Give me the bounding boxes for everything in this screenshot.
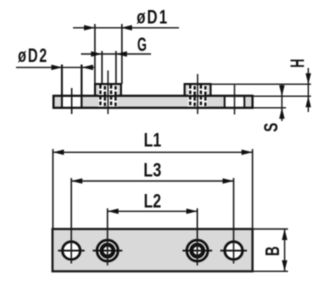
boss 1 thread dashed lines bbox=[100, 85, 115, 107]
hole 3 crosshair horizontal bbox=[183, 250, 213, 252]
H arrow bottom bbox=[306, 96, 312, 107]
svg-text:øD2: øD2 bbox=[18, 45, 49, 67]
hole 4 wall right bbox=[243, 96, 245, 107]
boss 2 hole gap (white, upper) bbox=[188, 85, 207, 95]
hole 1 centerline bbox=[71, 88, 73, 114]
svg-text:S: S bbox=[261, 123, 283, 132]
svg-text:H: H bbox=[287, 59, 309, 68]
D1 extension line right bbox=[121, 24, 123, 84]
D1 arrow left bbox=[84, 25, 95, 31]
G arrow left bbox=[91, 51, 102, 57]
hole 3 counterbore outer bbox=[187, 240, 208, 261]
svg-text:G: G bbox=[137, 34, 147, 56]
L3 extension line right (hole4 centerline) bbox=[233, 178, 235, 264]
hole 1 wall right bbox=[81, 65, 83, 108]
boss 1 body bbox=[95, 84, 121, 96]
hole 1 crosshair horizontal bbox=[58, 250, 85, 252]
S arrow top bbox=[279, 85, 285, 96]
boss 2 thread dashed lines bbox=[190, 85, 205, 107]
boss 1 hole gap (white, upper) bbox=[98, 85, 117, 95]
L2 extension line right (hole3 centerline) bbox=[196, 208, 198, 265]
svg-text:øD1: øD1 bbox=[137, 7, 169, 29]
D2 arrow left bbox=[51, 65, 62, 71]
plate (plan) bbox=[53, 229, 253, 271]
B dimension line bbox=[284, 229, 286, 271]
S arrow bottom bbox=[279, 108, 285, 119]
plate top extension line to H bbox=[253, 95, 312, 97]
L1 extension line right bbox=[252, 149, 254, 228]
hole 1 wall left bbox=[61, 65, 63, 108]
hole 1 gap (white) bbox=[63, 97, 81, 107]
hole 4 gap (white) bbox=[226, 98, 244, 107]
B extension line bottom bbox=[254, 270, 289, 272]
L2 arrow left bbox=[108, 209, 119, 215]
hole 4 circle bbox=[225, 242, 243, 260]
B arrow top bbox=[282, 229, 288, 240]
L3 arrow right bbox=[223, 178, 234, 184]
L3 extension line left (hole1 centerline) bbox=[70, 178, 72, 264]
plate (section) bbox=[54, 96, 253, 108]
L3 dimension line bbox=[71, 180, 233, 182]
hole 2 counterbore outer bbox=[97, 240, 118, 261]
boss 2 hole gap (white, lower) bbox=[188, 98, 207, 107]
H dimension line bbox=[307, 68, 309, 112]
hole 3 inner bbox=[191, 245, 203, 257]
H arrow top bbox=[306, 73, 312, 84]
hole 2 inner bbox=[102, 245, 114, 257]
hole 1 circle bbox=[62, 242, 80, 260]
B arrow bottom bbox=[282, 260, 288, 271]
boss 2 centerline bbox=[197, 74, 199, 114]
L1 dimension line bbox=[53, 151, 253, 153]
D2 arrow right bbox=[82, 65, 93, 71]
hole 4 wall left bbox=[224, 96, 226, 107]
L2 dimension line bbox=[108, 210, 198, 212]
L1 arrow right bbox=[242, 150, 253, 156]
G extension line left bbox=[101, 51, 103, 84]
hole 4 crosshair horizontal bbox=[220, 250, 247, 252]
boss 2 body bbox=[185, 84, 211, 96]
svg-text:L2: L2 bbox=[144, 191, 162, 213]
svg-text:L3: L3 bbox=[144, 159, 162, 181]
G extension line right bbox=[115, 51, 117, 84]
svg-text:B: B bbox=[262, 246, 284, 256]
boss 1 centerline bbox=[107, 71, 109, 115]
svg-text:L1: L1 bbox=[144, 130, 162, 152]
D1 dimension line bbox=[73, 27, 179, 29]
B extension line top bbox=[254, 228, 289, 230]
boss top extension line to H bbox=[212, 83, 311, 85]
boss 1 hole gap (white, lower) bbox=[98, 98, 117, 107]
hole 4 centerline bbox=[234, 85, 236, 115]
L1 extension line left bbox=[52, 149, 54, 228]
G arrow right bbox=[116, 51, 127, 57]
G dimension line bbox=[81, 53, 151, 55]
D1 extension line left (boss1 left wall up) bbox=[94, 24, 96, 84]
S dimension line bbox=[281, 84, 283, 121]
L3 arrow left bbox=[71, 178, 82, 184]
hole 2 crosshair horizontal bbox=[93, 250, 123, 252]
L2 extension line left (hole2 centerline) bbox=[107, 208, 109, 265]
L2 arrow right bbox=[186, 209, 197, 215]
D2 dimension line bbox=[16, 66, 94, 68]
D1 arrow right bbox=[121, 25, 132, 31]
L1 arrow left bbox=[53, 150, 64, 156]
plate bottom extension line to S bbox=[253, 107, 287, 109]
